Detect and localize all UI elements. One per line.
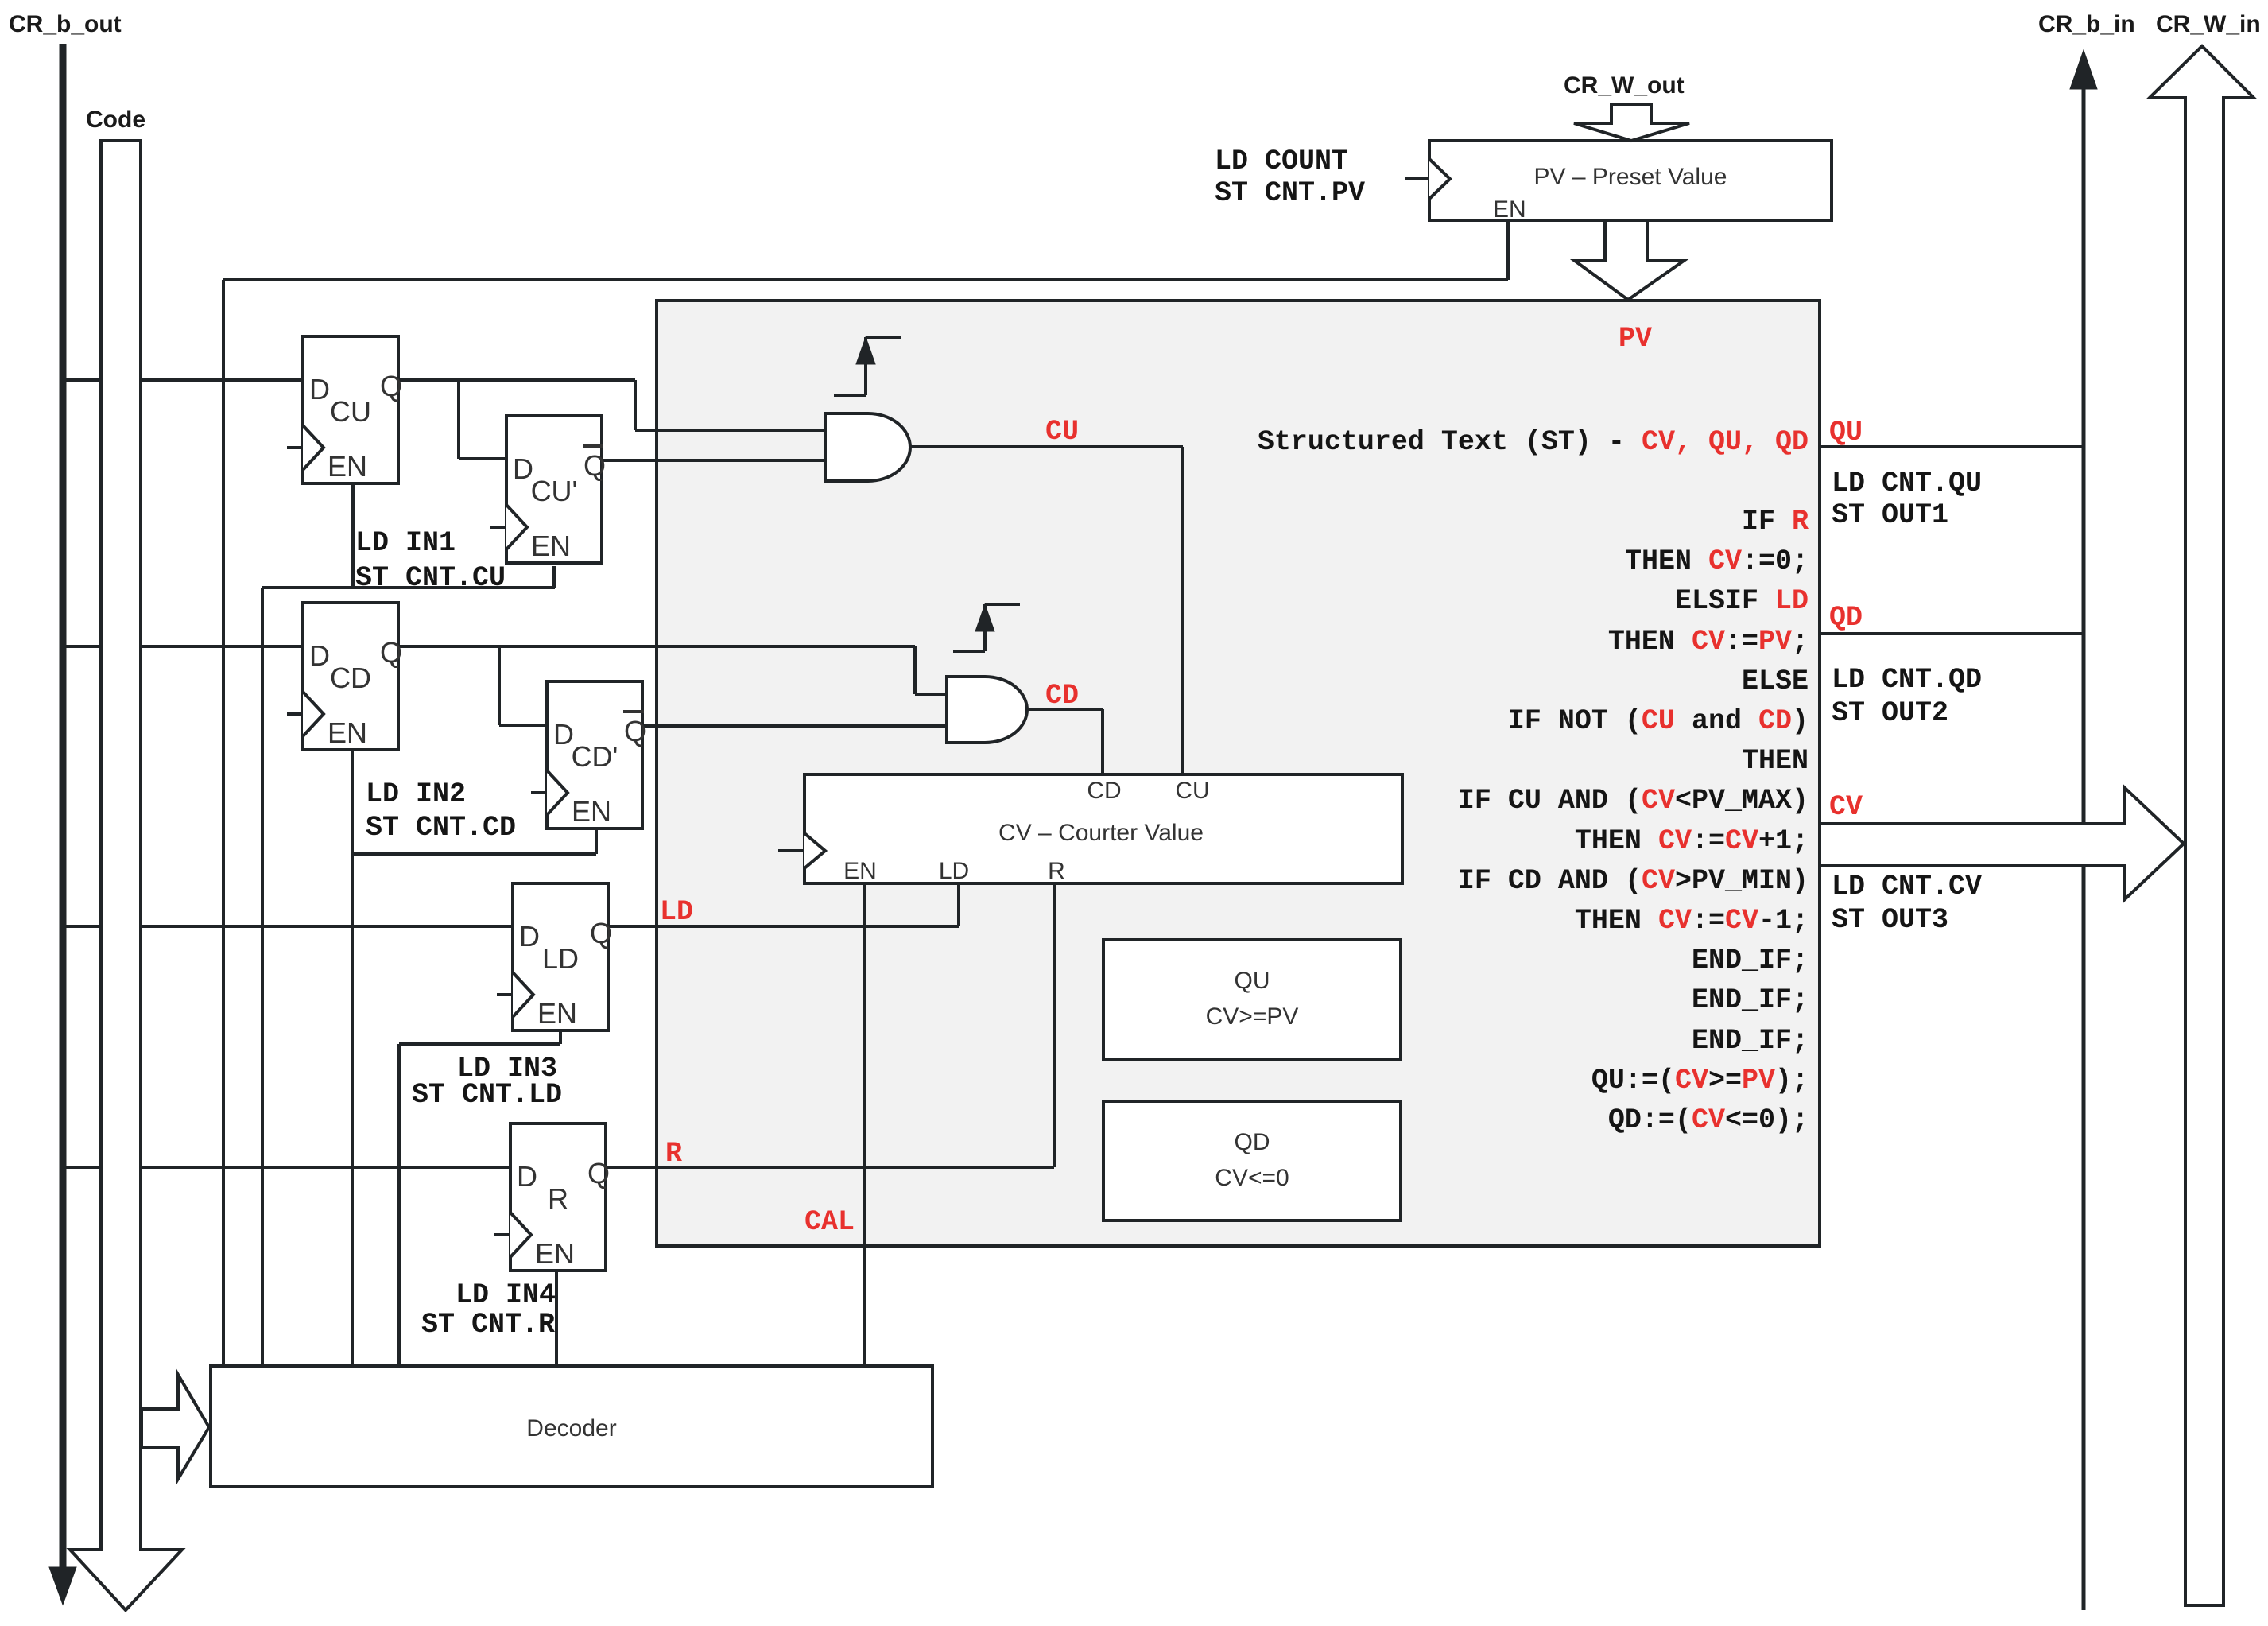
svg-text:CAL: CAL [804, 1206, 855, 1238]
svg-text:IF CU AND (CV<PV_MAX): IF CU AND (CV<PV_MAX) [1458, 785, 1809, 817]
svg-text:CD: CD [330, 662, 371, 694]
svg-text:IF CD AND (CV>PV_MIN): IF CD AND (CV>PV_MIN) [1458, 865, 1809, 897]
svg-text:PV: PV [1619, 323, 1652, 355]
svg-text:CV<=0: CV<=0 [1215, 1165, 1289, 1191]
svg-text:CD: CD [1087, 778, 1121, 804]
svg-text:EN: EN [328, 716, 367, 749]
svg-text:QD: QD [1829, 602, 1863, 634]
svg-text:Q: Q [590, 917, 612, 949]
svg-text:END_IF;: END_IF; [1692, 1025, 1809, 1057]
svg-text:CV>=PV: CV>=PV [1206, 1003, 1299, 1030]
svg-text:D: D [309, 639, 330, 672]
svg-text:LD IN2: LD IN2 [366, 778, 466, 810]
svg-text:CD': CD' [572, 740, 618, 773]
svg-text:EN: EN [1493, 196, 1526, 223]
svg-text:LD: LD [939, 858, 969, 884]
svg-text:LD IN4: LD IN4 [456, 1279, 556, 1311]
svg-text:D: D [519, 920, 540, 953]
svg-text:EN: EN [531, 530, 571, 562]
svg-text:QU: QU [1235, 968, 1270, 994]
svg-text:CD: CD [1045, 680, 1079, 712]
svg-text:ST OUT2: ST OUT2 [1832, 697, 1948, 729]
svg-text:CR_b_out: CR_b_out [9, 11, 122, 37]
svg-text:D: D [517, 1160, 537, 1193]
svg-text:LD: LD [660, 896, 693, 928]
svg-text:LD COUNT: LD COUNT [1215, 146, 1348, 177]
svg-text:CR_W_in: CR_W_in [2156, 11, 2261, 37]
svg-text:IF R: IF R [1742, 506, 1809, 537]
svg-text:Structured Text (ST) - CV, QU,: Structured Text (ST) - CV, QU, QD [1258, 426, 1809, 458]
svg-text:ST CNT.R: ST CNT.R [421, 1309, 555, 1341]
svg-text:THEN: THEN [1742, 745, 1809, 777]
svg-text:END_IF;: END_IF; [1692, 945, 1809, 976]
svg-text:ST CNT.LD: ST CNT.LD [412, 1079, 562, 1111]
svg-text:LD IN1: LD IN1 [355, 527, 456, 559]
svg-text:QD:=(CV<=0);: QD:=(CV<=0); [1608, 1104, 1809, 1136]
svg-text:CU: CU [1045, 416, 1079, 448]
svg-text:R: R [548, 1182, 568, 1215]
svg-text:Q: Q [380, 370, 402, 402]
svg-text:Q: Q [587, 1157, 610, 1189]
svg-text:ST CNT.CD: ST CNT.CD [366, 812, 516, 844]
svg-text:ST OUT3: ST OUT3 [1832, 904, 1948, 936]
svg-text:EN: EN [535, 1237, 575, 1270]
svg-text:ST OUT1: ST OUT1 [1832, 499, 1948, 531]
svg-text:QU: QU [1829, 417, 1863, 448]
svg-text:LD: LD [542, 942, 579, 975]
svg-text:Decoder: Decoder [526, 1415, 616, 1442]
svg-text:D: D [309, 373, 330, 406]
svg-text:R: R [1048, 858, 1065, 884]
svg-text:CR_W_out: CR_W_out [1564, 72, 1685, 99]
svg-text:EN: EN [572, 795, 611, 828]
svg-text:CU': CU' [531, 475, 578, 507]
svg-text:LD CNT.QU: LD CNT.QU [1832, 468, 1982, 499]
svg-text:PV – Preset Value: PV – Preset Value [1534, 164, 1727, 190]
svg-text:QU:=(CV>=PV);: QU:=(CV>=PV); [1591, 1065, 1809, 1096]
svg-text:THEN CV:=CV+1;: THEN CV:=CV+1; [1575, 825, 1809, 857]
svg-text:EN: EN [537, 997, 577, 1030]
svg-text:R: R [665, 1138, 682, 1170]
svg-text:ST CNT.CU: ST CNT.CU [355, 562, 506, 594]
svg-text:CU: CU [330, 395, 371, 428]
svg-text:ELSIF LD: ELSIF LD [1675, 585, 1809, 617]
svg-text:Q: Q [380, 636, 402, 669]
svg-text:Code: Code [86, 107, 145, 133]
svg-text:THEN CV:=PV;: THEN CV:=PV; [1608, 626, 1809, 658]
svg-text:QD: QD [1235, 1129, 1270, 1155]
svg-text:ST CNT.PV: ST CNT.PV [1215, 177, 1365, 209]
svg-text:CU: CU [1175, 778, 1209, 804]
svg-text:END_IF;: END_IF; [1692, 984, 1809, 1016]
svg-text:CV – Courter Value: CV – Courter Value [998, 820, 1204, 846]
svg-text:ELSE: ELSE [1742, 666, 1809, 697]
svg-text:THEN CV:=CV-1;: THEN CV:=CV-1; [1575, 905, 1809, 937]
svg-text:Q: Q [624, 715, 646, 747]
svg-text:EN: EN [328, 450, 367, 483]
svg-text:Q: Q [583, 449, 606, 482]
svg-text:EN: EN [843, 858, 877, 884]
svg-text:CR_b_in: CR_b_in [2038, 11, 2135, 37]
svg-text:LD CNT.CV: LD CNT.CV [1832, 871, 1982, 902]
svg-text:LD CNT.QD: LD CNT.QD [1832, 664, 1982, 696]
svg-text:CV: CV [1829, 791, 1863, 823]
svg-text:THEN CV:=0;: THEN CV:=0; [1625, 545, 1809, 577]
svg-text:IF NOT (CU and CD): IF NOT (CU and CD) [1508, 705, 1809, 737]
